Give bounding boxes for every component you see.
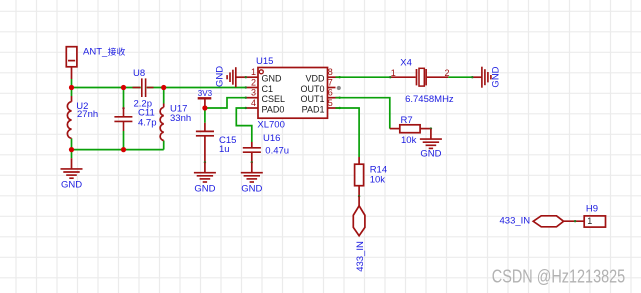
svg-text:C1: C1 — [262, 84, 274, 94]
net label ANT_接收 — [83, 47, 125, 58]
pin end dots — [245, 76, 341, 109]
wire pin 5 to R14 — [336, 108, 360, 157]
svg-text:1u: 1u — [219, 144, 230, 155]
wire U17 branch top — [163, 88, 165, 104]
svg-text:PAD0: PAD0 — [262, 105, 285, 115]
svg-text:6: 6 — [328, 88, 333, 98]
capacitor C15 — [196, 123, 214, 163]
svg-text:OUT1: OUT1 — [300, 94, 324, 104]
svg-text:H9: H9 — [586, 204, 598, 215]
ground below R7 — [420, 129, 442, 160]
wire pin 6 to R7 — [336, 98, 390, 129]
svg-text:GND: GND — [61, 180, 82, 191]
wire X4 to ground — [448, 76, 472, 78]
svg-text:1: 1 — [587, 216, 592, 226]
svg-text:33nh: 33nh — [170, 113, 191, 124]
junction at antenna/rail — [69, 85, 74, 90]
wire U2 branch bottom — [71, 138, 73, 149]
svg-text:6.7458MHz: 6.7458MHz — [405, 94, 454, 105]
capacitor C11 — [114, 107, 132, 131]
svg-text:4: 4 — [251, 98, 256, 108]
junction C11 bottom — [121, 147, 126, 152]
svg-text:GND: GND — [262, 74, 283, 84]
capacitor U8 — [133, 78, 154, 97]
junction U17 top — [161, 85, 166, 90]
svg-text:2: 2 — [251, 77, 256, 87]
antenna ANT_接收 — [66, 47, 77, 79]
svg-text:R7: R7 — [401, 115, 413, 126]
ground right of X4 (rotated right) — [471, 66, 502, 87]
inductor U17 — [160, 107, 164, 140]
svg-text:PAD1: PAD1 — [302, 105, 325, 115]
inductor U2 — [67, 102, 71, 139]
svg-text:10k: 10k — [370, 175, 386, 186]
wire C11 branch top — [123, 88, 125, 108]
svg-text:GND: GND — [491, 66, 502, 87]
svg-text:CSDN @Hz1213825: CSDN @Hz1213825 — [492, 267, 625, 287]
svg-text:10k: 10k — [401, 135, 417, 146]
svg-text:XL700: XL700 — [257, 120, 284, 131]
wire bottom rail — [72, 149, 164, 151]
pin end dot H9 — [574, 220, 576, 222]
svg-text:ANT_: ANT_ — [83, 47, 108, 58]
svg-text:CSEL: CSEL — [262, 94, 286, 104]
ground below U2 — [61, 150, 83, 191]
wire 3V3 to pin 3 — [205, 98, 246, 108]
svg-text:U15: U15 — [256, 56, 273, 67]
svg-text:VDD: VDD — [305, 74, 325, 84]
svg-text:8: 8 — [328, 67, 333, 77]
resistor R14 — [355, 157, 364, 197]
svg-text:1: 1 — [251, 67, 256, 77]
svg-text:1: 1 — [391, 68, 396, 78]
svg-text:27nh: 27nh — [77, 109, 98, 120]
ground at pin 1 (rotated left) — [215, 66, 246, 87]
svg-text:X4: X4 — [400, 57, 412, 68]
svg-text:3: 3 — [251, 88, 256, 98]
svg-text:4.7p: 4.7p — [138, 118, 157, 129]
svg-text:GND: GND — [194, 184, 215, 195]
inductor U17 lead — [163, 104, 165, 108]
port 433_IN (horizontal) — [533, 216, 563, 227]
svg-text:GND: GND — [215, 66, 226, 87]
capacitor U16 — [243, 142, 261, 162]
junction 3V3 — [202, 105, 207, 110]
wire main rail right segment to pin 2 — [147, 87, 246, 89]
wire C11 branch bottom — [123, 131, 125, 150]
junction U2 bottom — [69, 147, 74, 152]
svg-text:7: 7 — [328, 77, 333, 87]
ground below U16 — [241, 162, 263, 194]
wire U2 branch top — [71, 88, 73, 97]
svg-text:0.47u: 0.47u — [265, 146, 289, 157]
wire antenna to rail — [71, 79, 73, 88]
port 433_IN (vertical) — [353, 196, 366, 272]
svg-text:433_IN: 433_IN — [355, 241, 366, 272]
inductor U2 lead — [71, 96, 73, 102]
wire main rail left segment — [72, 87, 141, 89]
connector H9 pin 1 — [584, 216, 605, 227]
junction C11 top — [121, 85, 126, 90]
pin end dot U16 — [251, 161, 253, 163]
wire port to H9 — [564, 220, 584, 222]
crystal X4 — [389, 68, 450, 86]
power flag 3V3 — [198, 89, 213, 108]
wire U17 branch bottom — [163, 141, 165, 150]
svg-text:U8: U8 — [133, 68, 145, 79]
svg-text:3V3: 3V3 — [198, 89, 213, 98]
no-connect dot pin 7 — [337, 86, 341, 90]
svg-text:GND: GND — [420, 149, 441, 160]
pin end dot C15 — [204, 161, 206, 163]
IC U15 — [246, 67, 340, 118]
svg-text:OUT0: OUT0 — [300, 84, 324, 94]
resistor R7 — [390, 125, 432, 133]
svg-text:GND: GND — [241, 184, 262, 195]
ground below C15 — [194, 162, 216, 194]
svg-text:5: 5 — [328, 98, 333, 108]
svg-text:U16: U16 — [263, 133, 280, 144]
wire 3V3 down to C15 — [204, 108, 206, 123]
wire pin 8 to X4 — [336, 76, 391, 78]
svg-text:433_IN: 433_IN — [500, 215, 531, 226]
wire pin 4 to U16 — [236, 108, 252, 142]
